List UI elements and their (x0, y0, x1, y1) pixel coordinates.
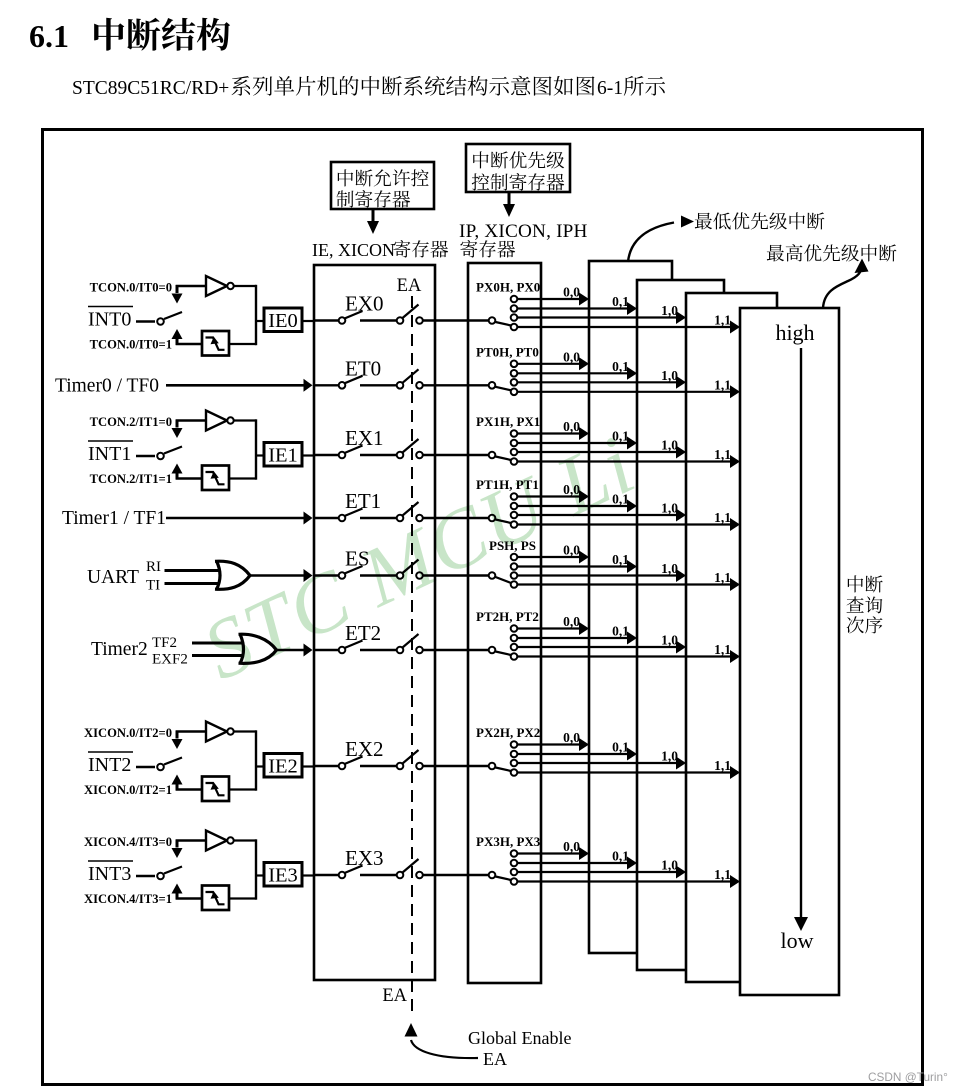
svg-text:1,0: 1,0 (661, 438, 678, 453)
priority request wires EX1 (518, 419, 740, 468)
svg-text:EX1: EX1 (345, 426, 384, 450)
box interrupt-enable-register label (中断允许控 制寄存器) (331, 162, 434, 209)
input circuit INT1 (edge/level select) (88, 411, 315, 491)
svg-text:IE2: IE2 (268, 756, 298, 778)
svg-text:1,0: 1,0 (661, 633, 678, 648)
priority selector PX2H, PX2 (476, 725, 540, 776)
svg-text:EXF2: EXF2 (152, 652, 188, 668)
subtitle sentence (72, 76, 665, 99)
label low (781, 928, 814, 953)
input circuit INT0 (edge/level select) (88, 276, 315, 356)
priority selector PT2H, PT2 (476, 609, 539, 660)
enable switch EX1 (315, 426, 488, 458)
EA global-enable dashed line (411, 296, 413, 1016)
svg-text:1,1: 1,1 (714, 377, 731, 392)
svg-text:PX2H, PX2: PX2H, PX2 (476, 725, 540, 740)
svg-text:0,0: 0,0 (563, 419, 580, 434)
svg-text:high: high (775, 320, 814, 345)
svg-text:PX0H, PX0: PX0H, PX0 (476, 280, 540, 295)
svg-text:0,0: 0,0 (563, 839, 580, 854)
svg-text:Timer1 / TF1: Timer1 / TF1 (62, 508, 166, 529)
svg-text:1,0: 1,0 (661, 303, 678, 318)
svg-text:0,1: 0,1 (612, 849, 629, 864)
input Timer1/TF1 (62, 508, 313, 529)
svg-text:1,1: 1,1 (714, 570, 731, 585)
label Global Enable EA (468, 1028, 571, 1069)
register block IE/XICON (enable switches) (314, 265, 435, 980)
svg-text:6.1: 6.1 (29, 18, 69, 54)
svg-text:PT2H, PT2: PT2H, PT2 (476, 609, 539, 624)
svg-text:EX0: EX0 (345, 292, 384, 316)
svg-text:CSDN @Turin°: CSDN @Turin° (868, 1070, 948, 1084)
input Timer0/TF0 (55, 375, 313, 396)
enable switch ET0 (315, 356, 488, 388)
svg-text:RI: RI (146, 559, 161, 575)
input Timer2 TF2/EXF2 with OR gate U-or2 (91, 634, 313, 668)
svg-text:1,0: 1,0 (661, 749, 678, 764)
priority request wires ET0 (518, 349, 740, 398)
svg-text:1,1: 1,1 (714, 758, 731, 773)
input circuit INT2 (edge/level select) (84, 722, 315, 802)
svg-text:0,1: 0,1 (612, 294, 629, 309)
svg-text:TCON.0/IT0=0: TCON.0/IT0=0 (90, 281, 172, 295)
svg-text:TF2: TF2 (152, 635, 177, 651)
priority selector PT1H, PT1 (476, 477, 539, 528)
svg-text:INT2: INT2 (88, 754, 131, 776)
register block IP/XICON/IPH (priority selectors) (468, 263, 541, 983)
svg-text:EX3: EX3 (345, 846, 384, 870)
priority selector PT0H, PT0 (476, 344, 539, 395)
enable switch ET2 (315, 621, 488, 653)
svg-text:XICON.4/IT3=0: XICON.4/IT3=0 (84, 835, 172, 849)
priority column 0,0 (589, 261, 672, 953)
svg-text:Global Enable: Global Enable (468, 1028, 571, 1048)
svg-text:IE1: IE1 (268, 445, 298, 467)
svg-text:IE, XICON: IE, XICON (312, 240, 395, 260)
svg-text:6-1: 6-1 (597, 78, 623, 99)
svg-text:0,0: 0,0 (563, 543, 580, 558)
svg-text:1,1: 1,1 (714, 510, 731, 525)
svg-text:TI: TI (146, 578, 160, 594)
priority column 0,1 (637, 280, 724, 970)
priority selector PX3H, PX3 (476, 834, 541, 885)
svg-text:ET1: ET1 (345, 489, 381, 513)
svg-text:INT0: INT0 (88, 309, 131, 331)
enable switch ET1 (315, 489, 488, 521)
enable switch EX0 (315, 292, 488, 324)
svg-text:EA: EA (382, 986, 407, 1006)
svg-text:IE3: IE3 (268, 865, 298, 887)
svg-text:INT3: INT3 (88, 863, 131, 885)
priority request wires ES (518, 543, 740, 592)
label lowest priority interrupt (最低优先级中断) (695, 212, 825, 229)
svg-text:STC89C51RC/RD+: STC89C51RC/RD+ (72, 78, 229, 99)
label EA bottom (382, 986, 407, 1006)
svg-text:UART: UART (87, 567, 139, 588)
svg-text:0,0: 0,0 (563, 285, 580, 300)
label highest priority interrupt (最高优先级中断) (767, 244, 897, 261)
label IE, XICON register (IE, XICON寄存器) (312, 240, 448, 260)
arrow from enable-register box to IE,XICON register (367, 209, 379, 234)
arrow from priority-register box to IP,XICON,IPH register (503, 192, 515, 217)
svg-text:Timer0 / TF0: Timer0 / TF0 (55, 375, 159, 396)
label high (775, 320, 814, 345)
svg-text:1,1: 1,1 (714, 642, 731, 657)
svg-text:1,0: 1,0 (661, 368, 678, 383)
svg-text:PX1H, PX1: PX1H, PX1 (476, 414, 540, 429)
svg-text:ET0: ET0 (345, 356, 381, 380)
input UART RI/TI with OR gate U-or1 (87, 559, 313, 594)
arrow to highest-priority label (823, 259, 869, 309)
svg-text:INT1: INT1 (88, 443, 131, 465)
priority request wires EX3 (518, 839, 740, 888)
svg-text:EA: EA (397, 276, 422, 296)
svg-text:TCON.0/IT0=1: TCON.0/IT0=1 (90, 338, 172, 352)
svg-text:0,1: 0,1 (612, 552, 629, 567)
svg-text:TCON.2/IT1=0: TCON.2/IT1=0 (90, 415, 172, 429)
svg-text:EA: EA (483, 1049, 507, 1069)
svg-text:Timer2: Timer2 (91, 639, 148, 660)
svg-text:0,1: 0,1 (612, 624, 629, 639)
priority request wires ET2 (518, 614, 740, 663)
priority selector PX0H, PX0 (476, 280, 540, 331)
svg-text:EX2: EX2 (345, 737, 384, 761)
label IP, XICON, IPH register (459, 221, 588, 258)
label EA top (397, 276, 422, 296)
arrow to lowest-priority label (628, 216, 694, 263)
svg-text:1,1: 1,1 (714, 447, 731, 462)
svg-text:XICON.4/IT3=1: XICON.4/IT3=1 (84, 892, 172, 906)
enable switch EX2 (315, 737, 488, 769)
section heading 6.1 中断结构 (29, 18, 230, 54)
svg-text:1,0: 1,0 (661, 561, 678, 576)
priority selector PSH, PS (489, 538, 536, 588)
priority column 1,0 (686, 293, 777, 982)
label interrupt query order (中断 查询 次序) (847, 575, 883, 633)
svg-text:XICON.0/IT2=0: XICON.0/IT2=0 (84, 726, 172, 740)
svg-text:1,1: 1,1 (714, 313, 731, 328)
svg-text:PT0H, PT0: PT0H, PT0 (476, 344, 539, 359)
svg-text:1,0: 1,0 (661, 858, 678, 873)
svg-text:PX3H, PX3: PX3H, PX3 (476, 834, 541, 849)
svg-text:0,0: 0,0 (563, 730, 580, 745)
box interrupt-priority-register label (中断优先级 控制寄存器) (466, 144, 570, 192)
svg-text:XICON.0/IT2=1: XICON.0/IT2=1 (84, 783, 172, 797)
svg-text:0,0: 0,0 (563, 349, 580, 364)
priority request wires EX0 (518, 285, 740, 334)
svg-text:0,1: 0,1 (612, 359, 629, 374)
svg-text:low: low (781, 928, 814, 953)
priority request wires ET1 (518, 482, 740, 531)
enable switch ES (315, 547, 488, 579)
svg-text:TCON.2/IT1=1: TCON.2/IT1=1 (90, 472, 172, 486)
watermark CSDN @Turin (868, 1070, 948, 1084)
priority resolve column 1,1 (high..low) (740, 308, 839, 995)
watermark STC MCU (green, multiply-blended) (190, 418, 649, 698)
svg-text:0,1: 0,1 (612, 740, 629, 755)
svg-text:1,0: 1,0 (661, 501, 678, 516)
polling order arrow high to low (794, 348, 808, 931)
svg-text:IP, XICON, IPH: IP, XICON, IPH (459, 221, 588, 242)
global enable pointer arrow and curve (405, 1023, 479, 1058)
svg-text:IE0: IE0 (268, 310, 298, 332)
priority selector PX1H, PX1 (476, 414, 540, 465)
svg-text:1,1: 1,1 (714, 867, 731, 882)
enable switch EX3 (315, 846, 488, 878)
svg-text:0,0: 0,0 (563, 614, 580, 629)
priority request wires EX2 (518, 730, 740, 779)
input circuit INT3 (edge/level select) (84, 831, 315, 911)
